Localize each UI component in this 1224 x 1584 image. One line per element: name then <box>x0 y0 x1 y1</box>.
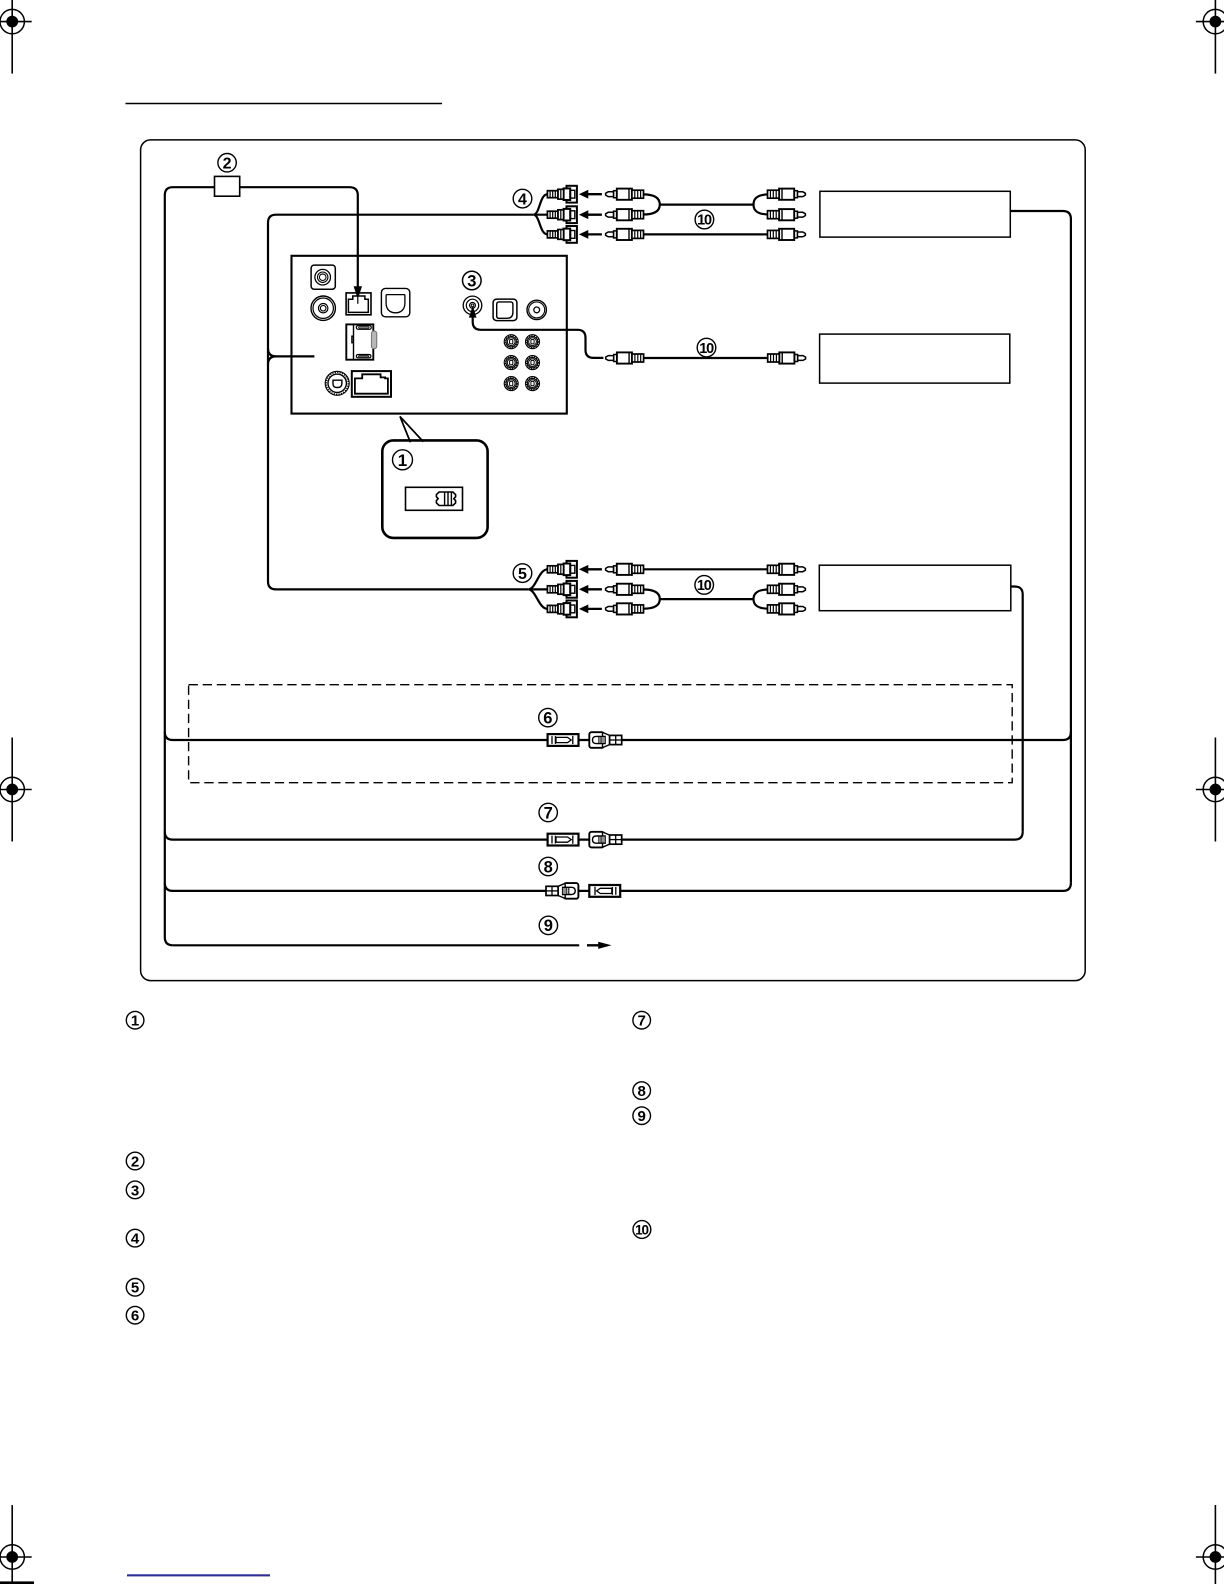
outer diagram border <box>141 140 1086 981</box>
wire branch to lead 6 <box>165 732 1071 740</box>
label circle 10 group5 <box>695 576 714 595</box>
box 1 (monitor) <box>820 191 1010 237</box>
legend circle 2 <box>126 1152 144 1170</box>
legend circle 9 <box>633 1107 651 1125</box>
svg-text:3: 3 <box>467 272 476 290</box>
svg-text:7: 7 <box>638 1013 646 1030</box>
wire lead 9 <box>173 944 579 946</box>
svg-text:8: 8 <box>638 1083 646 1100</box>
group 4 fan branches <box>533 194 547 234</box>
coax connector <box>311 296 335 320</box>
square connector <box>493 299 517 321</box>
lead 6 male connector <box>548 734 579 746</box>
label circle 10 single cable <box>697 338 716 357</box>
fuse holder box <box>406 487 463 510</box>
box 2 <box>820 334 1010 383</box>
wire from box3 down to lead 7 <box>1011 587 1023 832</box>
svg-text:6: 6 <box>131 1308 139 1325</box>
single AV cable <box>643 357 768 359</box>
callout pointer item 1 <box>400 416 425 444</box>
svg-text:9: 9 <box>544 917 553 935</box>
RJ45 jack small (item2 target) <box>346 293 371 315</box>
registration mark middle-left <box>0 738 32 842</box>
wire arrow from item2 into RJ45 jack <box>357 256 359 288</box>
DIN connector middle <box>346 324 376 359</box>
legend circle 8 <box>633 1082 651 1100</box>
device rear panel outline <box>292 256 567 414</box>
registration mark top-right <box>1196 0 1224 74</box>
wire from box1 down to leads 6 and 8 <box>1010 211 1071 883</box>
wire from item2 right side to panel connector <box>240 187 358 288</box>
registration mark bottom-left <box>0 1505 32 1584</box>
group 4 male plugs left end <box>606 189 644 200</box>
small round connector <box>527 300 546 319</box>
wire to fan of group 4 <box>276 214 533 216</box>
optical connector <box>381 288 409 316</box>
svg-text:2: 2 <box>223 156 232 173</box>
arrowhead into jack3 <box>469 306 477 318</box>
group 5 video cable row1 <box>643 568 768 570</box>
svg-text:5: 5 <box>518 566 527 583</box>
legend circle 6 <box>126 1306 144 1324</box>
registration mark bottom-right <box>1196 1505 1224 1584</box>
wire stub into panel from DIN lead <box>292 355 315 357</box>
registration mark top-left <box>0 0 32 74</box>
legend circle 3 <box>126 1181 144 1199</box>
group 4 video cable row3 <box>643 233 768 235</box>
label circle 5 <box>513 564 532 583</box>
svg-text:10: 10 <box>697 213 712 229</box>
group 4 female jacks <box>547 186 577 203</box>
lead 6 female connector <box>589 732 621 748</box>
wire from jack3 to single cable <box>473 311 604 358</box>
label circle 4 <box>513 189 532 208</box>
label circle 10 group4 <box>695 210 714 229</box>
group 5 female jacks <box>547 561 577 578</box>
label circle 2 <box>218 154 236 173</box>
group 4 arrows <box>579 190 602 199</box>
label circle 9 <box>539 916 557 935</box>
box 3 <box>819 565 1011 611</box>
group 5 fan branches <box>528 569 547 609</box>
svg-text:10: 10 <box>697 578 712 594</box>
label circle 7 <box>539 803 557 822</box>
single cable male plug right <box>768 352 806 363</box>
lead 8 male connector <box>589 885 620 897</box>
RCA output jacks grid <box>504 335 518 349</box>
black footer stub <box>0 1581 34 1584</box>
svg-text:4: 4 <box>518 191 527 208</box>
legend circle 7 <box>633 1011 651 1029</box>
label circle 3 <box>463 271 482 290</box>
wire branch to lead 7 <box>165 832 1023 840</box>
RJ45 jack large <box>352 371 391 397</box>
dashed option box <box>189 685 1013 783</box>
arrow lead 9 <box>587 942 612 949</box>
wire to fan of group 5 <box>276 588 528 590</box>
blue footer rule <box>127 1574 270 1576</box>
lead 8 female connector <box>546 883 578 899</box>
group 5 arrows <box>579 565 602 574</box>
wire tree from panel DIN to RCA fans <box>268 348 314 356</box>
svg-text:4: 4 <box>131 1231 140 1248</box>
single cable male plug left <box>606 352 644 363</box>
svg-text:6: 6 <box>543 709 552 727</box>
arrowhead into panel connector <box>354 286 362 299</box>
group 5 extension cable row2+row3 merge <box>643 590 660 609</box>
svg-text:7: 7 <box>544 804 553 822</box>
svg-text:10: 10 <box>699 341 714 357</box>
group 4 extension cable row1+row2 merge <box>643 194 660 214</box>
svg-text:8: 8 <box>544 858 553 876</box>
label circle 6 <box>539 708 557 727</box>
legend circle 1 <box>126 1011 144 1029</box>
registration mark middle-right <box>1196 738 1224 842</box>
legend circle 4 <box>126 1229 144 1247</box>
wire from item2 left side down to leads 6-9 <box>165 187 215 945</box>
title underline <box>126 103 443 105</box>
group 4 male plugs right end <box>768 189 806 200</box>
wire branch to lead 8 <box>165 883 1071 891</box>
svg-text:9: 9 <box>638 1108 646 1125</box>
svg-text:3: 3 <box>131 1182 139 1199</box>
item 2 inline box <box>215 176 240 196</box>
group 5 male plugs left end <box>606 564 644 575</box>
svg-text:1: 1 <box>398 451 407 470</box>
legend circle 10 <box>633 1221 651 1239</box>
svg-text:1: 1 <box>131 1013 139 1030</box>
USB round connector <box>325 371 349 395</box>
group 5 male plugs right end <box>768 564 806 575</box>
wire from jack3 inside panel <box>473 311 567 330</box>
svg-text:5: 5 <box>131 1280 139 1297</box>
antenna jack connector <box>311 265 335 289</box>
lead 7 male connector <box>548 834 579 846</box>
legend circle 5 <box>126 1279 144 1297</box>
callout box item 1 <box>382 440 487 538</box>
label circle 1 <box>393 450 413 470</box>
fuse icon <box>436 492 455 506</box>
label circle 8 <box>539 857 557 876</box>
lead 7 female connector <box>589 832 621 848</box>
svg-text:2: 2 <box>131 1153 139 1170</box>
svg-text:10: 10 <box>635 1222 648 1237</box>
AV input jack 3 <box>463 296 482 315</box>
